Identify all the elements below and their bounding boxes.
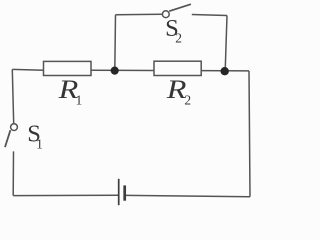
svg-text:1: 1 [36, 136, 43, 151]
svg-text:2: 2 [175, 30, 182, 45]
svg-text:1: 1 [76, 93, 83, 108]
svg-text:2: 2 [184, 93, 191, 108]
